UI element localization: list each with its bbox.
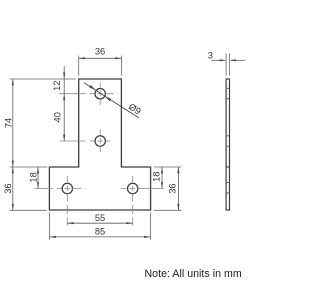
svg-text:74: 74 [3,118,13,128]
svg-text:85: 85 [95,227,105,237]
side view step edge (flange top) [226,166,229,168]
dim 74: arrow up [12,79,14,85]
svg-text:18: 18 [28,172,38,182]
dim 85: dimension line [49,236,150,238]
dim 12: arrow down at top edge [63,73,65,79]
side view outline [226,79,229,210]
dim 85: left arrow [49,236,55,238]
dim 12: line with outside arrow above [63,66,65,141]
hole H4 horizontal centerline [121,188,164,190]
hole H1 horizontal centerline [60,93,114,95]
dim 18 left: arrow down [37,182,39,188]
svg-text:3: 3 [208,51,213,61]
dim 55: left arrow [67,222,73,224]
dim 40: arrow down at hole H2 centerline [63,135,65,141]
svg-text:18: 18 [151,172,161,182]
leader arrowhead upper-left (points to hole edge) [89,85,96,90]
hole H3 (bottom-left) [62,183,72,193]
dim 74/36-left bottom extension line (plate bottom, to the left) [10,209,47,211]
dim 74: dimension line [12,79,14,167]
dim 85: right extension line (from bottom-right corner) [150,212,152,239]
svg-text:36: 36 [3,183,13,193]
dim 36 top: left arrow [79,57,85,59]
dim 3: left arrow line (outside, pointing right) [211,59,225,61]
dim 18 left: arrow up [37,167,39,173]
dim 36 top: extension lines [79,56,122,76]
dim 12/40: arrow up at hole H1 centerline [63,94,65,100]
hole H1 (top) [95,89,105,99]
dim 85: right arrow [144,236,150,238]
dim 36 left: dimension line [12,167,14,210]
dim 3: right arrowhead [230,59,236,61]
svg-text:12: 12 [52,81,62,91]
hole H3 horizontal centerline [35,188,82,190]
dim 55: dimension line [67,222,132,224]
dim 74: arrow down [12,161,14,167]
dim 36 left: arrow up [12,167,14,173]
dim 36 right: dimension line [177,167,179,210]
svg-text:Note: All units in mm: Note: All units in mm [145,268,242,280]
leader arrowhead lower-right (points to hole edge) [105,96,112,102]
side view holes H3/H4 silhouette lines [226,183,229,194]
dim 12/40 shared extension line (top edge, to the left) [10,78,76,80]
dim 36 right bottom extension line (plate bottom, to the right) [154,209,182,211]
dim 85: left extension line (from bottom-left corner) [48,212,50,239]
dim 3: extension lines [226,54,229,76]
dim 55: right arrow [126,222,132,224]
hole H1 vertical centerline [99,83,101,105]
svg-text:36: 36 [168,183,178,193]
svg-text:55: 55 [95,213,105,223]
dim 18 right: arrow down [161,182,163,188]
hole H2 vertical centerline [99,130,101,152]
hole H3 vertical centerline extended to 55-dim [66,176,68,226]
side view hole H1 silhouette lines [226,88,229,99]
dim 18 right: arrow up [161,167,163,173]
leader line for diameter callout [84,83,139,118]
dim 36 top: dimension line [79,57,122,59]
dim 74/36-left shared extension line (flange top, to the left) [10,166,48,168]
side view hole H2 silhouette lines [226,136,229,146]
dim 36 right: arrow up [177,167,179,173]
hole H2 horizontal centerline [60,140,111,142]
svg-text:40: 40 [53,112,63,122]
dim 18 left: dimension line [37,167,39,189]
hole H4 (bottom-right) [128,183,138,193]
dim 3: right arrow line (outside, pointing left) [231,59,246,61]
dim 36 right: arrow down [177,204,179,210]
dim 18 right: dimension line [161,167,163,189]
svg-text:36: 36 [95,46,105,56]
hole H2 (middle) [95,136,105,146]
dim 18/36 right shared extension line (flange top, to the right) [154,166,182,168]
hole H4 vertical centerline extended to 55-dim [132,176,134,226]
dim 3: left arrowhead [220,59,226,61]
dim 36 left: arrow down [12,204,14,210]
dim 36 top: right arrow [115,57,121,59]
svg-text:Ø9: Ø9 [127,102,143,117]
plate outline (front view, T-shape) [49,79,150,210]
